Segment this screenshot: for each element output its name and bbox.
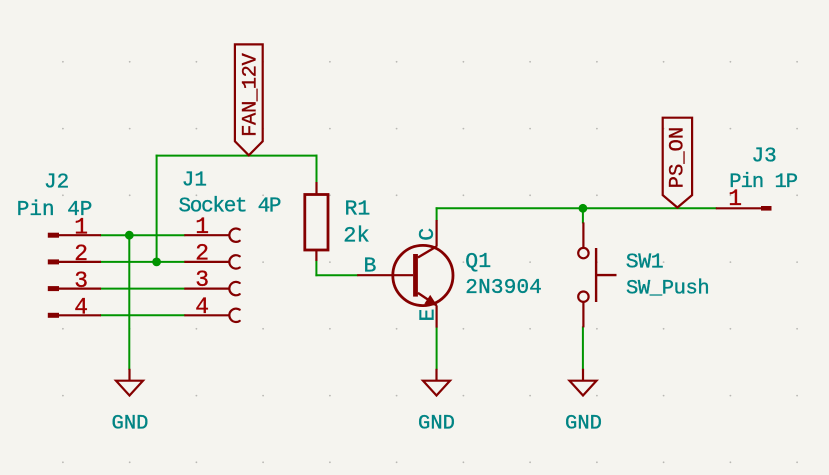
J1 pin 2 <box>184 255 239 268</box>
wire SW1 bottom to ground <box>582 327 584 368</box>
svg-text:B: B <box>364 255 377 279</box>
wire Q1 base horizontal <box>316 274 357 276</box>
wire J2 pin 1 to J1 pin 1 <box>101 234 184 236</box>
J1 pin 1 <box>184 229 239 242</box>
svg-text:FAN_12V: FAN_12V <box>239 52 262 136</box>
svg-text:2: 2 <box>195 241 209 267</box>
J1 pin 4 <box>184 309 239 322</box>
global label PS_ON <box>663 118 692 208</box>
J2 pin 2 <box>48 259 101 264</box>
svg-text:3: 3 <box>195 267 209 293</box>
wire GND drop from pin 1 junction <box>128 235 130 369</box>
svg-text:PS_ON: PS_ON <box>667 127 690 189</box>
svg-text:C: C <box>416 228 440 241</box>
svg-text:GND: GND <box>418 412 455 435</box>
J3 pin 1 <box>716 206 772 211</box>
svg-text:Socket 4P: Socket 4P <box>179 196 281 219</box>
svg-text:1: 1 <box>74 214 88 240</box>
ground GND1 (J2 net) <box>116 369 143 396</box>
svg-text:J1: J1 <box>182 169 207 192</box>
wire J2 pin 3 to J1 pin 3 <box>101 288 184 290</box>
wire Q1 collector riser <box>436 208 438 220</box>
svg-text:R1: R1 <box>345 198 371 222</box>
svg-text:J2: J2 <box>44 172 69 195</box>
svg-text:SW1: SW1 <box>626 250 664 274</box>
transistor Q1 body <box>357 220 453 328</box>
wire SW1 top contact riser <box>582 208 584 222</box>
svg-text:2k: 2k <box>343 224 369 249</box>
J2 pin 4 <box>48 313 101 318</box>
wire J2 pin 4 to J1 pin 4 <box>101 314 184 316</box>
J2 pin 3 <box>48 286 101 291</box>
wire net FAN_12V vertical drop to J1 pin 2 <box>156 156 158 262</box>
svg-text:4: 4 <box>195 294 209 320</box>
svg-text:GND: GND <box>565 412 602 435</box>
resistor R1 body <box>305 182 328 261</box>
svg-text:E: E <box>416 309 440 322</box>
svg-text:SW_Push: SW_Push <box>626 278 709 301</box>
svg-text:1: 1 <box>728 186 742 212</box>
junction PS_ON / SW1 <box>579 204 588 213</box>
J2 pin 1 <box>48 233 101 238</box>
switch SW1 body <box>578 222 616 327</box>
J1 pin 3 <box>184 282 239 295</box>
svg-text:Q1: Q1 <box>465 250 491 274</box>
svg-text:4: 4 <box>74 295 88 321</box>
svg-text:J3: J3 <box>752 145 777 168</box>
wire R1 top to FAN_12V net <box>316 156 318 182</box>
svg-text:1: 1 <box>195 214 209 240</box>
wire R1 bottom to Q1 base corner <box>315 261 317 275</box>
ground GND3 (SW1) <box>570 369 597 396</box>
svg-text:2: 2 <box>74 241 88 267</box>
global label FAN_12V <box>235 44 263 155</box>
wire net PS_ON horizontal <box>437 207 716 209</box>
junction J1 pin 2 / FAN_12V drop <box>152 258 161 267</box>
junction J2 pin 1 / GND drop <box>125 231 134 240</box>
wire net FAN_12V horizontal top <box>157 155 317 157</box>
ground GND2 (Q1 emitter) <box>423 369 450 396</box>
wire J2 pin 2 to J1 pin 2 <box>101 261 184 263</box>
wire Q1 emitter to ground <box>436 328 438 369</box>
svg-text:2N3904: 2N3904 <box>465 277 542 300</box>
svg-text:3: 3 <box>74 268 88 294</box>
svg-text:GND: GND <box>112 412 149 435</box>
